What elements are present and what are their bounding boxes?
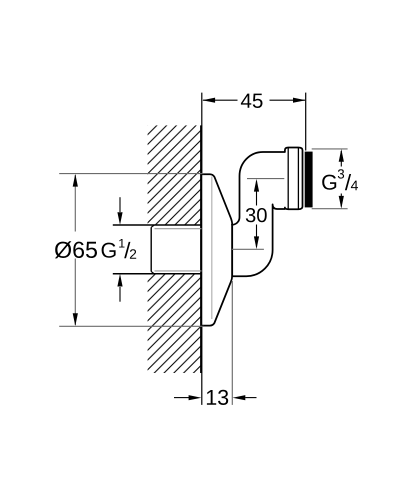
dimension 45 line right segment bbox=[270, 99, 306, 101]
dimension G3/4 extension line bottom bbox=[312, 208, 348, 210]
dimension D65 line upper segment bbox=[74, 175, 76, 232]
dimension 45 arrow left bbox=[202, 98, 215, 103]
connector chamfer line left bbox=[287, 148, 289, 210]
wall surface line bbox=[200, 125, 202, 373]
inlet pipe end chamfer top bbox=[151, 225, 154, 227]
dimension 30 text bbox=[246, 208, 267, 222]
flange secondary edge line bbox=[211, 177, 213, 320]
inlet pipe G1/2 bottom outline + extension line bbox=[113, 273, 202, 275]
label G1/2 denominator 2 bbox=[130, 249, 136, 259]
label G1/2 slash bbox=[124, 242, 130, 258]
dimension 30 upper stem bbox=[256, 181, 258, 206]
inlet pipe end face bbox=[150, 227, 152, 271]
dimension 45 text bbox=[241, 94, 263, 108]
label G3/4 denominator 4 bbox=[351, 181, 358, 191]
inlet pipe G1/2 top outline + extension line bbox=[113, 224, 202, 226]
extension line left (45 top / 13 bottom), merged with wall surface bbox=[201, 93, 203, 405]
dimension 13 extension line right bbox=[231, 281, 233, 405]
label G3/4 numerator 3 bbox=[338, 169, 344, 178]
dimension 13 right arrowhead bbox=[233, 395, 246, 400]
dimension 13 left stem bbox=[174, 397, 189, 399]
label G3/4 letter G bbox=[322, 175, 336, 190]
connector chamfer line right bbox=[297, 148, 299, 210]
dimension 30 lower stem bbox=[256, 225, 258, 248]
dimension G3/4 lower stem bbox=[340, 194, 342, 207]
dimension 45 line left segment bbox=[203, 99, 238, 101]
dimension 13 right stem bbox=[245, 397, 256, 399]
wall hatching upper section bbox=[148, 125, 202, 225]
dimension G3/4 arrow up bbox=[339, 149, 344, 162]
dimension 13 text bbox=[207, 390, 228, 405]
dimension G1/2 upper arrow stem bbox=[119, 197, 121, 212]
label G3/4 slash bbox=[345, 174, 351, 190]
dimension D65 arrow up bbox=[73, 174, 78, 187]
flange escutcheon outline bbox=[201, 174, 232, 325]
dimension 30 arrow up bbox=[254, 179, 259, 192]
inlet pipe thread minor line bottom bbox=[155, 270, 202, 272]
label G1/2 letter G bbox=[102, 243, 116, 258]
dimension G1/2 lower arrow stem bbox=[119, 287, 121, 302]
pipe body silhouette with connector bbox=[232, 148, 303, 277]
dimension 45 arrow right bbox=[293, 98, 306, 103]
dimension D65 line lower segment bbox=[74, 259, 76, 326]
inlet pipe thread minor line top bbox=[155, 228, 202, 230]
dimension 30 arrow down bbox=[254, 236, 259, 249]
dimension D65 arrow down bbox=[73, 313, 78, 326]
dimension G1/2 lower arrowhead bbox=[117, 274, 122, 287]
dimension 45 extension line right bbox=[305, 93, 307, 151]
dimension D65 extension line bottom bbox=[59, 325, 204, 327]
dimension D65 extension line top bbox=[59, 173, 204, 175]
dimension 13 left arrowhead bbox=[189, 395, 202, 400]
dimension D65 text bbox=[55, 241, 97, 258]
inlet pipe end chamfer bottom bbox=[151, 272, 154, 274]
dimension 30 extension line bottom bbox=[232, 248, 264, 250]
dimension G3/4 arrow down bbox=[339, 196, 344, 209]
wall hatching lower section bbox=[148, 274, 202, 373]
dimension G1/2 upper arrowhead bbox=[117, 212, 122, 225]
label G1/2 numerator 1 bbox=[119, 239, 124, 248]
connector gasket black band bbox=[305, 152, 313, 208]
dimension 30 extension line top bbox=[247, 178, 284, 180]
dimension G3/4 upper stem bbox=[340, 151, 342, 167]
dimension G3/4 extension line top bbox=[312, 148, 348, 150]
